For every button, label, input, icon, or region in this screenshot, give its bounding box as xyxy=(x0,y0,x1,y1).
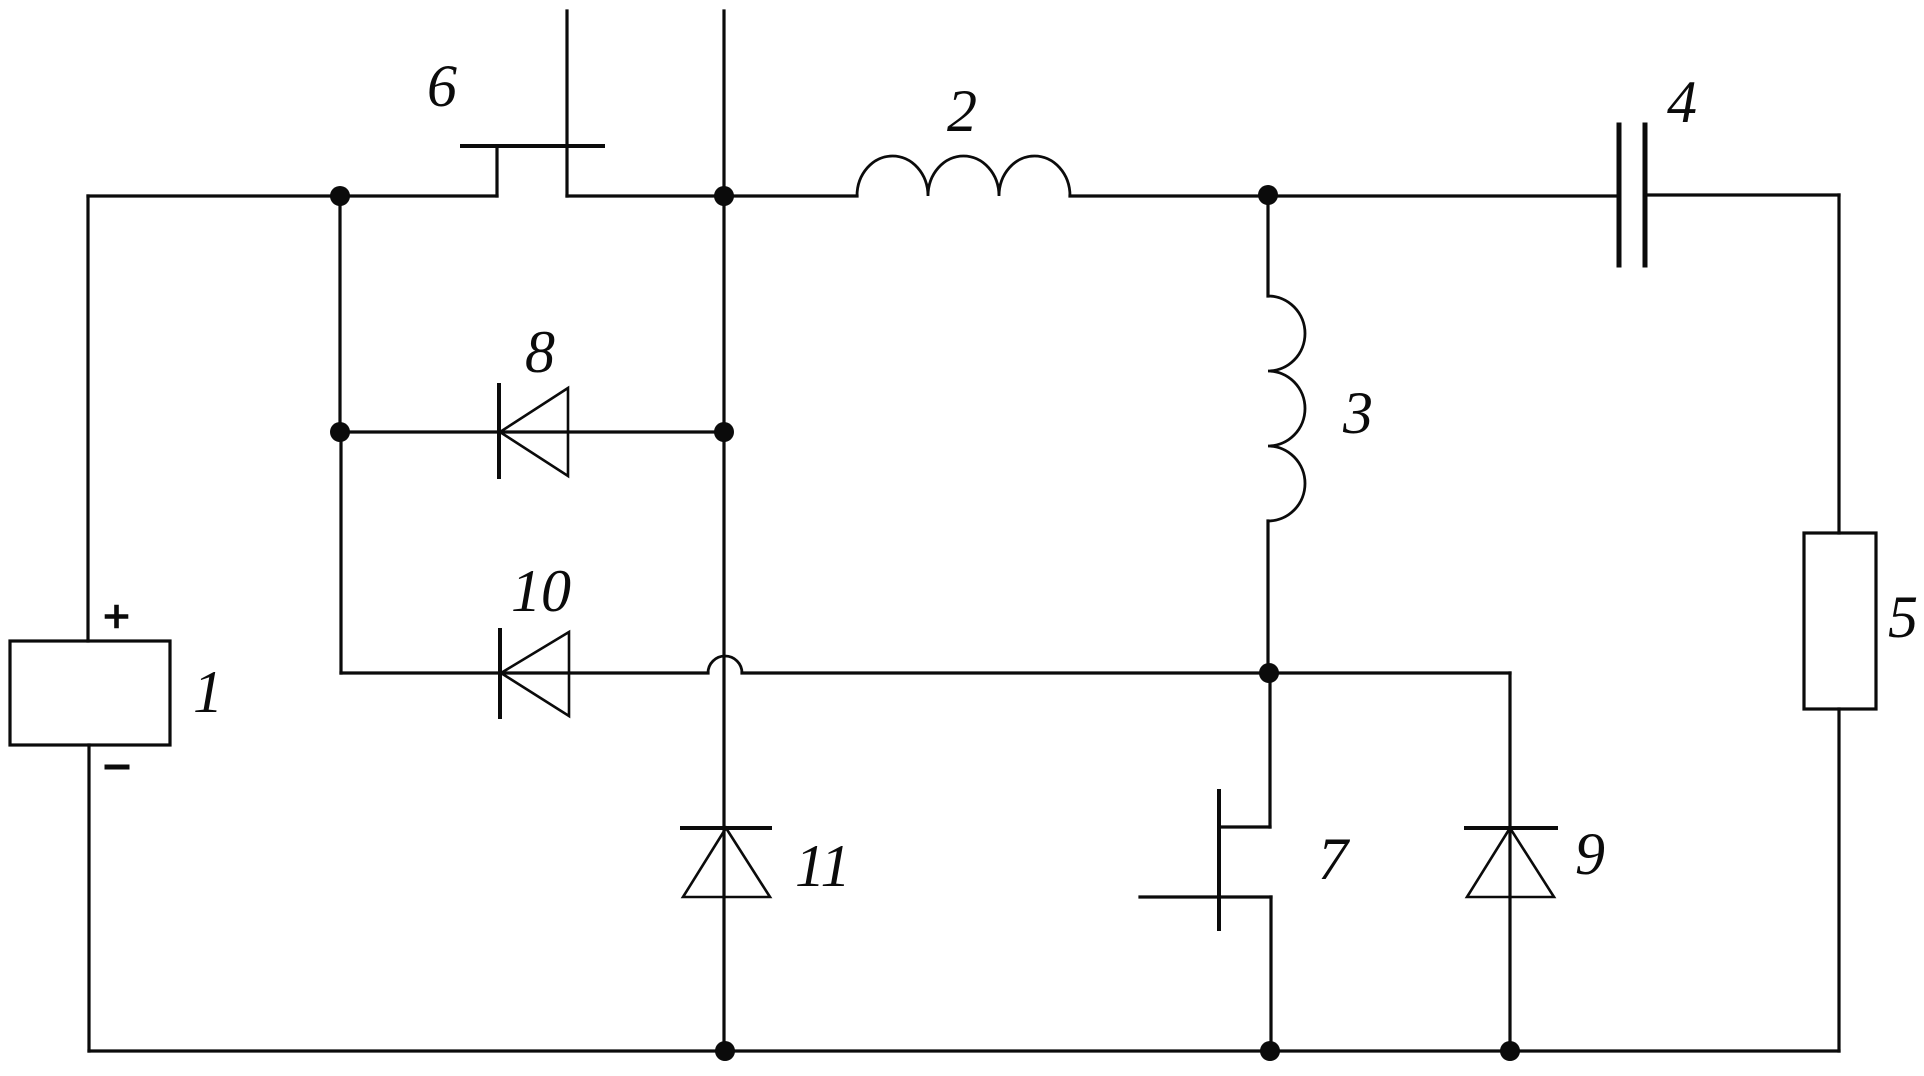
svg-text:1: 1 xyxy=(193,659,223,725)
wire top right horizontal xyxy=(1070,194,1619,197)
node bottom transistor7 xyxy=(1260,1041,1280,1061)
node top-middle xyxy=(714,186,734,206)
wire right vertical upper xyxy=(1837,195,1840,533)
diode 8 triangle xyxy=(500,388,568,476)
diode 9 cathode bar xyxy=(1466,826,1556,830)
wire diode 8 row horizontal xyxy=(340,430,724,433)
svg-text:10: 10 xyxy=(511,558,571,624)
inductor 3 bottom lead xyxy=(1266,521,1269,673)
wire diode 10 row left xyxy=(341,671,708,674)
wire middle vertical xyxy=(722,11,725,1051)
transistor 7 gate and source horizontal xyxy=(1140,895,1271,898)
wire left vertical lower xyxy=(87,745,90,1051)
wire top middle horizontal xyxy=(567,194,857,197)
node bottom diode9 xyxy=(1500,1041,1520,1061)
battery 1 plus sign xyxy=(107,607,126,626)
node top inductor3 xyxy=(1258,185,1278,205)
wire left vertical upper xyxy=(86,196,89,641)
svg-text:6: 6 xyxy=(427,53,457,119)
svg-text:5: 5 xyxy=(1888,584,1918,650)
diode 10 cathode bar xyxy=(498,630,502,717)
wire bottom horizontal xyxy=(89,1049,1839,1052)
svg-text:8: 8 xyxy=(525,319,555,385)
transistor 7 channel bar xyxy=(1217,791,1221,929)
wire hop over middle vertical xyxy=(708,656,742,673)
node top-left xyxy=(330,186,350,206)
node diode8 left xyxy=(330,422,350,442)
transistor 6 channel bar xyxy=(462,144,603,148)
transistor 6 gate vertical wire xyxy=(565,11,568,196)
diode 10 triangle xyxy=(501,632,569,716)
node bottom diode11 xyxy=(715,1041,735,1061)
transistor 7 source vertical xyxy=(1269,897,1272,1051)
wire right vertical lower xyxy=(1837,709,1840,1051)
transistor 7 drain vertical xyxy=(1268,673,1271,827)
diode 9 triangle xyxy=(1467,828,1554,897)
wire left branch vertical lower xyxy=(339,432,342,673)
diode 11 cathode bar xyxy=(682,826,770,830)
wire top-left horizontal xyxy=(88,194,497,197)
capacitor 4 left plate xyxy=(1617,125,1622,265)
battery 1 minus sign xyxy=(107,765,127,770)
svg-text:3: 3 xyxy=(1342,380,1373,446)
diode 8 cathode bar xyxy=(497,385,501,477)
wire left branch vertical upper xyxy=(338,196,341,432)
battery 1 box xyxy=(10,641,170,745)
resistor 5 box xyxy=(1804,533,1876,709)
capacitor 4 right plate xyxy=(1643,125,1648,265)
diode 11 triangle xyxy=(683,828,770,897)
wire from capacitor to right corner xyxy=(1645,193,1839,196)
inductor 3 xyxy=(1268,296,1305,521)
svg-text:2: 2 xyxy=(947,78,977,144)
wire diode 10 row right xyxy=(742,671,1510,674)
inductor 3 top lead xyxy=(1266,196,1269,296)
svg-text:4: 4 xyxy=(1667,69,1697,135)
node inductor3 bottom xyxy=(1259,663,1279,683)
svg-text:9: 9 xyxy=(1575,821,1605,887)
transistor 7 drain horizontal xyxy=(1219,825,1270,828)
node diode8 right xyxy=(714,422,734,442)
transistor 6 source riser xyxy=(495,146,498,196)
svg-text:7: 7 xyxy=(1318,826,1351,892)
wire diode 9 branch vertical xyxy=(1508,673,1511,1051)
inductor 2 xyxy=(857,156,1070,196)
svg-text:11: 11 xyxy=(795,833,851,899)
